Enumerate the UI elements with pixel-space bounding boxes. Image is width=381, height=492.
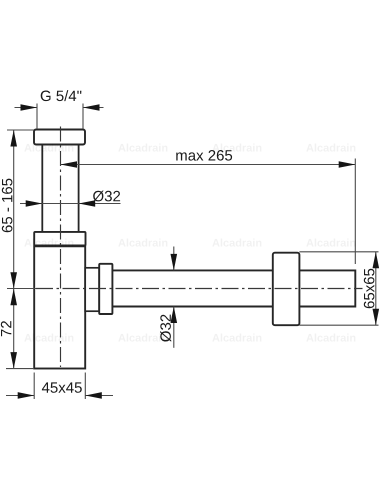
- dim G 5/4 line left: [15, 107, 38, 109]
- dim 72 arrow bottom: [10, 352, 17, 369]
- dim max 265 arrow left: [60, 161, 77, 168]
- label max 265: [176, 150, 232, 161]
- horizontal centerline: [36, 288, 363, 290]
- dim G 5/4 arrow right: [83, 104, 100, 111]
- outlet boss: [85, 268, 99, 311]
- dim outlet diameter arrow bottom: [171, 307, 178, 324]
- dim G 5/4 line right: [83, 107, 104, 109]
- label outlet diameter O32: [160, 315, 171, 342]
- inlet pipe wall left: [41, 145, 43, 232]
- dim 65x65 line: [375, 252, 377, 325]
- dim G 5/4 arrow left: [21, 104, 38, 111]
- vertical centerline: [60, 127, 62, 368]
- watermark tiles: [24, 144, 355, 342]
- dim 45x45 extension left: [33, 373, 35, 400]
- label inlet diameter O32: [93, 191, 120, 202]
- dim 45x45 line left: [6, 395, 34, 397]
- dim 45x45 arrow left: [18, 392, 35, 399]
- inlet pipe wall right: [78, 145, 80, 232]
- dim 65x65 extension top: [299, 251, 378, 253]
- dim inlet diameter line: [20, 203, 121, 205]
- dim 65x65 arrow bottom: [373, 309, 380, 326]
- dim outlet diameter line bottom: [173, 307, 175, 348]
- label G 5/4": [41, 90, 82, 101]
- dim inlet diameter arrow left: [26, 200, 43, 207]
- dim max 265 arrow right: [339, 161, 356, 168]
- trap body: [34, 246, 85, 368]
- dim G 5/4 extension left: [36, 104, 38, 130]
- label 72: [1, 321, 12, 336]
- dim outlet diameter arrow top: [171, 254, 178, 271]
- dim max 265 line: [60, 164, 355, 166]
- dim inlet diameter arrow right: [79, 200, 96, 207]
- dim 72 extension bottom: [6, 368, 34, 370]
- top flange: [34, 130, 85, 145]
- outlet pipe: [112, 270, 355, 306]
- dim 65x65 arrow top: [373, 252, 380, 268]
- dim 45x45 line right: [85, 395, 113, 397]
- wall flange 65x65: [273, 253, 300, 326]
- dim 45x45 extension right: [84, 373, 86, 400]
- dim 65-165 arrow bottom: [10, 272, 17, 288]
- union nut: [34, 232, 85, 246]
- dim G 5/4 extension right: [82, 104, 84, 130]
- dim 65x65 extension bottom: [299, 324, 378, 326]
- dim 72 line: [13, 289, 15, 369]
- dim max 265 extension right: [354, 159, 356, 265]
- dim outlet diameter line top: [173, 247, 175, 271]
- dim 65-165 arrow top: [10, 130, 17, 147]
- dim 45x45 arrow right: [85, 392, 102, 399]
- dim 72 arrow top: [10, 289, 17, 306]
- outlet nut: [99, 264, 112, 314]
- extension line left of body at outlet axis: [7, 288, 36, 290]
- label 65x65: [364, 269, 375, 309]
- label 45x45: [42, 382, 82, 392]
- dim 65-165 line: [13, 130, 15, 289]
- label 65 - 165: [2, 179, 13, 233]
- dim 65-165 extension top: [7, 129, 34, 131]
